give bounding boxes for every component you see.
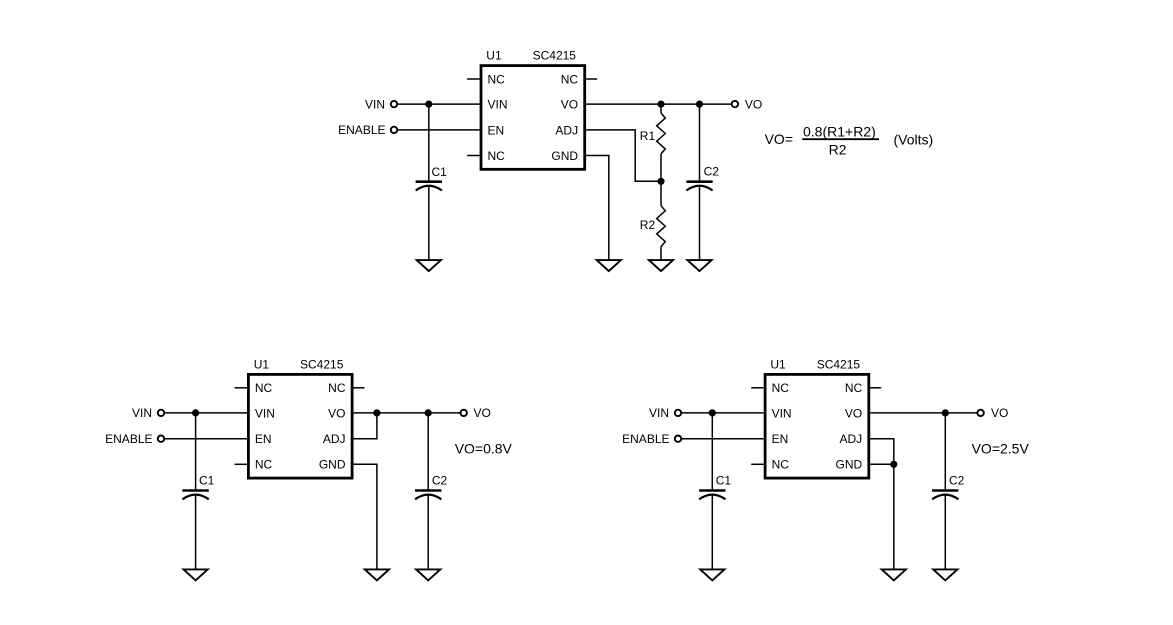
pin stub NC (right top) [586,78,597,80]
pin stub NC (pin 1, left top) [751,387,764,389]
ground below U1 GND pin (bottom-left circuit) [365,569,389,580]
wire GND pin to ground [586,156,609,260]
junction R1 top on VO net [657,101,664,108]
wire VO net down to C2 [427,413,429,490]
wire GND pin to ground [354,464,377,569]
svg-text:SC4215: SC4215 [533,49,577,63]
pin stub NC (right top) [354,387,365,389]
svg-text:ENABLE: ENABLE [338,123,385,137]
pin stub NC (left bottom) [235,463,248,465]
svg-text:0.8(R1+R2): 0.8(R1+R2) [803,124,876,140]
svg-text:VO: VO [561,97,578,111]
wire VO net down to C2 [699,104,701,181]
IC U1 (bottom-right) SC4215 body [765,374,869,478]
junction C1 tap on VIN net [425,101,432,108]
pin stub NC (pin 1, left top) [235,387,248,389]
resistor R1 [657,113,666,154]
junction ADJ feedback tap on VO net [373,409,380,416]
terminal ENABLE (input port, top circuit) [391,127,397,133]
capacitor C1 (bottom-right circuit) [699,474,731,500]
terminal VIN (input port, bottom-right circuit) [675,410,681,416]
junction R1/R2 divider node [657,178,664,185]
svg-text:C2: C2 [949,474,965,488]
svg-text:NC: NC [488,72,506,86]
terminal VIN (input port, bottom-left circuit) [158,410,164,416]
terminal VO (output port, bottom-right circuit) [977,410,983,416]
svg-text:ADJ: ADJ [555,123,578,137]
svg-text:C1: C1 [199,474,215,488]
junction C2 tap on VO net [696,101,703,108]
pin stub NC (left bottom) [467,155,480,157]
wire ADJ/GND junction to ground [893,464,895,569]
wire VIN terminal to U1 pin VIN [397,103,479,105]
svg-text:VO=0.8V: VO=0.8V [455,441,513,457]
wire C1 to ground [711,495,713,570]
svg-text:EN: EN [488,123,505,137]
svg-text:VO: VO [328,406,345,420]
wire VO net down to C2 [944,413,946,490]
wire ADJ pin to R1/R2 divider node [586,130,658,181]
capacitor C1 (top circuit) [416,165,448,191]
svg-text:SC4215: SC4215 [300,357,344,371]
junction ADJ/GND tie [890,461,897,468]
svg-text:U1: U1 [770,357,786,371]
svg-text:NC: NC [845,381,863,395]
svg-text:VO=: VO= [765,131,793,147]
wire R1 to divider node [660,154,662,181]
wire VO net from U1 pin VO [870,412,977,414]
terminal VO (output port, top circuit) [732,101,738,107]
svg-text:NC: NC [488,149,506,163]
wire VIN terminal to U1 pin VIN [681,412,763,414]
wire C2 to ground [699,186,701,260]
wire VIN net down to C1 [711,413,713,490]
svg-text:EN: EN [255,432,272,446]
svg-text:VIN: VIN [132,406,152,420]
wire ADJ pin down to GND pin [870,439,894,465]
svg-text:R2: R2 [640,218,656,232]
junction C1 tap on VIN net [709,409,716,416]
svg-text:C2: C2 [704,165,720,179]
terminal ENABLE (input port, bottom-left circuit) [158,436,164,442]
wire divider node to R2 [660,181,662,205]
terminal ENABLE (input port, bottom-right circuit) [675,436,681,442]
wire GND pin to ADJ junction [870,463,894,465]
svg-text:VIN: VIN [649,406,669,420]
svg-text:EN: EN [772,432,789,446]
ground below C1 (top circuit) [417,260,441,271]
svg-text:NC: NC [328,381,346,395]
svg-text:VO: VO [991,406,1008,420]
svg-text:R2: R2 [829,142,847,158]
svg-text:U1: U1 [254,357,270,371]
wire VIN net down to C1 [195,413,197,490]
pin stub NC (pin 1, left top) [467,78,480,80]
junction C2 tap on VO net [425,409,432,416]
ground below C1 (bottom-right circuit) [700,569,724,580]
wire R2 to ground [660,247,662,261]
svg-text:U1: U1 [486,49,502,63]
svg-text:VIN: VIN [365,97,385,111]
wire ENABLE terminal to U1 pin EN [397,129,479,131]
IC U1 (bottom-left) SC4215 body [248,374,352,478]
svg-text:VO: VO [474,406,491,420]
capacitor C2 (top circuit) [686,165,719,191]
IC U1 (top) SC4215 body [481,66,585,170]
ground below U1 GND pin (top circuit) [597,260,621,271]
ground below C2 (bottom-right circuit) [933,569,957,580]
svg-text:GND: GND [551,149,578,163]
wire ENABLE terminal to U1 pin EN [681,438,763,440]
ground below U1 GND pin (bottom-right circuit) [882,569,906,580]
svg-text:GND: GND [836,458,863,472]
svg-text:VIN: VIN [255,406,275,420]
svg-text:NC: NC [772,381,790,395]
wire ADJ pin up to VO net [354,413,377,439]
svg-text:ENABLE: ENABLE [105,432,152,446]
svg-text:ADJ: ADJ [323,432,346,446]
svg-text:SC4215: SC4215 [817,357,861,371]
svg-text:VIN: VIN [772,406,792,420]
ground below C2 (top circuit) [687,260,711,271]
svg-text:VO: VO [745,97,762,111]
terminal VO (output port, bottom-left circuit) [461,410,467,416]
resistor R2 [657,206,666,247]
pin stub NC (left bottom) [751,463,764,465]
junction C2 tap on VO net [942,409,949,416]
ground below R2 [649,260,673,271]
wire C2 to ground [427,495,429,570]
capacitor C2 (bottom-left circuit) [415,474,448,500]
wire C1 to ground [195,495,197,570]
svg-text:C1: C1 [432,165,448,179]
wire VO net to R1 [660,104,662,113]
svg-text:NC: NC [561,72,579,86]
svg-text:GND: GND [319,458,346,472]
svg-text:VO=2.5V: VO=2.5V [972,441,1030,457]
svg-text:NC: NC [772,458,790,472]
capacitor C1 (bottom-left circuit) [182,474,214,500]
svg-text:VIN: VIN [488,97,508,111]
wire C2 to ground [944,495,946,570]
wire VIN terminal to U1 pin VIN [164,412,247,414]
pin stub NC (right top) [870,387,881,389]
wire ENABLE terminal to U1 pin EN [164,438,247,440]
svg-text:ADJ: ADJ [840,432,863,446]
wire C1 to ground [428,186,430,260]
ground below C1 (bottom-left circuit) [184,569,208,580]
svg-text:C1: C1 [716,474,732,488]
svg-text:NC: NC [255,381,273,395]
svg-text:VO: VO [845,406,862,420]
terminal VIN (input port, top circuit) [391,101,397,107]
svg-text:C2: C2 [432,474,448,488]
svg-text:NC: NC [255,458,273,472]
capacitor C2 (bottom-right circuit) [932,474,965,500]
svg-text:ENABLE: ENABLE [622,432,669,446]
wire VIN net down to C1 [428,104,430,181]
formula VO= 0.8(R1+R2)/R2 (Volts) [765,124,934,158]
wire VO net from U1 pin VO [354,412,461,414]
svg-text:R1: R1 [640,129,656,143]
junction C1 tap on VIN net [192,409,199,416]
svg-text:(Volts): (Volts) [894,132,934,148]
wire VO net from U1 pin VO [586,103,731,105]
ground below C2 (bottom-left circuit) [416,569,440,580]
